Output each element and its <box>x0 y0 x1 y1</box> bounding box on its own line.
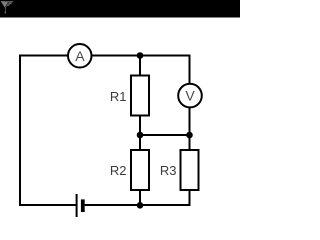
svg-text:R1: R1 <box>110 89 127 104</box>
svg-text:R2: R2 <box>110 163 127 178</box>
svg-text:V: V <box>185 88 195 104</box>
svg-text:A: A <box>75 48 85 64</box>
svg-text:R3: R3 <box>160 163 177 178</box>
